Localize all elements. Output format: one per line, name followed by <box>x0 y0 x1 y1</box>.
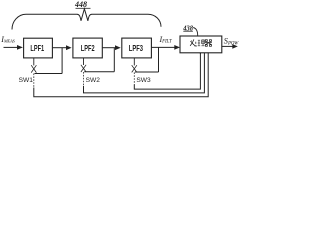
LPF3 box <box>122 38 152 58</box>
switch SW1 contact X <box>31 65 36 72</box>
processor pin 1 <box>199 53 201 54</box>
svg-text:LPF2: LPF2 <box>81 43 95 53</box>
wire SW1 bypass <box>35 73 63 75</box>
wire SW2 bypass <box>84 71 114 73</box>
control line SW2 run <box>84 53 205 93</box>
brace 448 span <box>12 9 161 30</box>
processor box U438 <box>180 36 222 53</box>
control line SW3 dashed <box>133 72 135 84</box>
svg-text:LPF1: LPF1 <box>30 43 44 53</box>
LPF2 box <box>73 38 102 58</box>
control line SW2 dashed <box>83 72 85 86</box>
svg-text:LPF3: LPF3 <box>129 43 143 53</box>
control line SW1 dashed <box>33 74 35 88</box>
control line SW1 run <box>34 53 208 97</box>
switch SW1 stub <box>33 58 35 66</box>
control line SW3 run <box>134 53 200 89</box>
node after LPF2 tap <box>113 48 115 72</box>
switch SW3 stub <box>133 58 135 66</box>
leader arc 438 to processor <box>193 28 198 36</box>
wire LPF1 to LPF2 <box>52 47 66 49</box>
wire processor output arrow <box>222 45 233 47</box>
svg-text:448: 448 <box>74 0 87 9</box>
wire SW3 bypass <box>135 71 159 73</box>
switch SW2 stub <box>83 58 85 65</box>
wire LPF3 to processor <box>151 46 174 48</box>
node after LPF3 tap <box>158 47 160 72</box>
wire input arrow <box>4 46 18 48</box>
svg-text:SW1: SW1 <box>19 77 34 84</box>
switch SW3 contact X <box>132 65 137 72</box>
glyph 器 <box>205 40 212 47</box>
glyph 处 <box>190 39 197 46</box>
glyph 理 <box>198 40 205 46</box>
node after LPF1 tap <box>61 48 63 74</box>
svg-text:SPOW: SPOW <box>224 37 239 47</box>
wire LPF2 to LPF3 <box>102 47 115 49</box>
svg-text:IFILT: IFILT <box>159 35 173 45</box>
svg-text:SW2: SW2 <box>86 77 101 84</box>
svg-text:IMEAS: IMEAS <box>0 35 15 44</box>
LPF1 box <box>24 38 53 58</box>
switch SW2 contact X <box>81 65 86 72</box>
svg-text:SW3: SW3 <box>136 77 151 84</box>
